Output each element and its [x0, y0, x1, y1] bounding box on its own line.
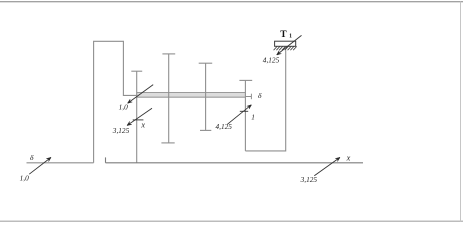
- wire: stepped wall outline: [94, 41, 137, 163]
- ground line left: [27, 162, 94, 164]
- hanger rod 4 (at beam right end): [239, 80, 252, 150]
- svg-text:4,125: 4,125: [216, 122, 233, 131]
- axis arrow at origin (delta axis): [29, 157, 51, 174]
- leader arrow with tick on rod 4 (4,125): [228, 105, 252, 124]
- svg-text:δ: δ: [30, 153, 34, 162]
- svg-text:T: T: [280, 29, 287, 40]
- leader arrow with tick on rod 1 (3,125): [127, 108, 152, 125]
- leader arrow to beam left end (1,0): [128, 85, 154, 104]
- svg-text:1: 1: [289, 34, 292, 40]
- label T1: [280, 29, 292, 40]
- hanger rod 2: [161, 54, 175, 143]
- svg-text:δ: δ: [258, 91, 262, 100]
- svg-text:1,0: 1,0: [20, 174, 29, 183]
- wire: U-link frame to support T1: [245, 50, 285, 151]
- svg-text:3,125: 3,125: [300, 175, 318, 184]
- svg-text:1,0: 1,0: [119, 102, 128, 111]
- svg-text:4,125: 4,125: [263, 55, 280, 64]
- svg-text:x: x: [346, 154, 351, 163]
- hanger rod 3: [199, 63, 213, 130]
- leader arrow to support (4,125): [277, 35, 302, 55]
- svg-text:x: x: [140, 120, 145, 129]
- svg-text:3,125: 3,125: [112, 126, 130, 135]
- hanger rod 1: [131, 71, 142, 163]
- support T1 (hatched fixed anchor): [274, 41, 297, 50]
- svg-text:1: 1: [251, 112, 255, 121]
- axis arrow bottom right (x axis): [314, 157, 340, 175]
- beam (shaded bar): [137, 93, 246, 98]
- pointer tick at beam right end: [245, 94, 251, 100]
- ground line right: [106, 157, 364, 162]
